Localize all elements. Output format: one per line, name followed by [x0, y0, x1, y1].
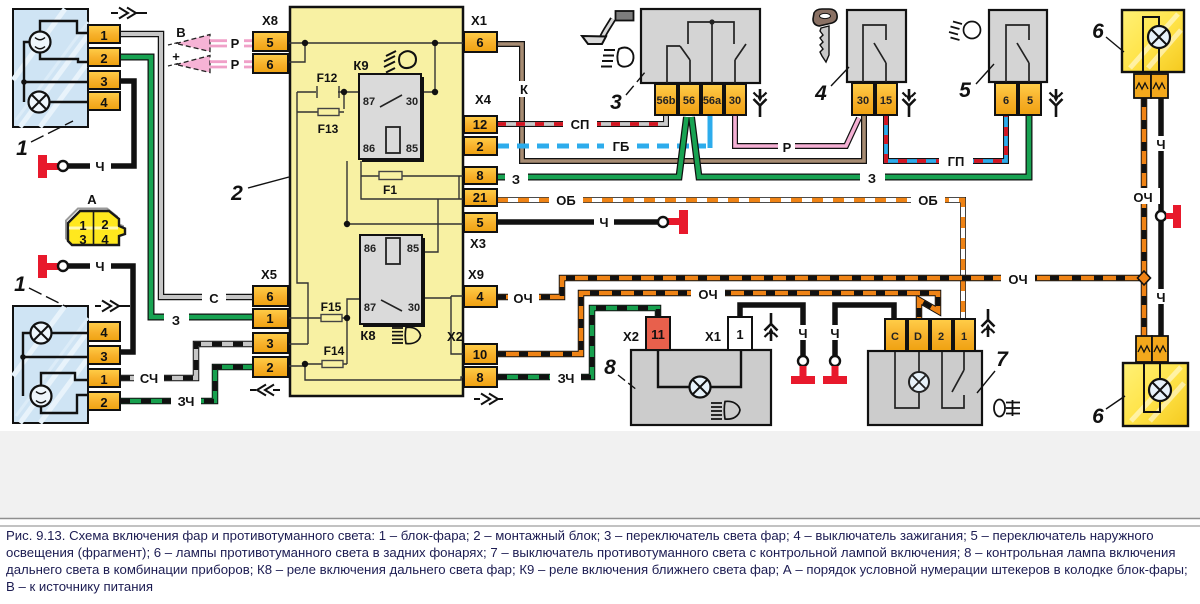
svg-text:4: 4 — [101, 232, 109, 247]
wire internal F1 frame to X3-21 — [361, 176, 464, 199]
svg-text:ГБ: ГБ — [613, 139, 630, 154]
relay K9 — [359, 74, 424, 162]
svg-text:1: 1 — [736, 327, 743, 342]
svg-text:6: 6 — [1092, 405, 1104, 428]
label А connector (pin numbering) — [66, 209, 125, 248]
wire internal X8-5 to X1-6 — [288, 42, 464, 44]
svg-text:F12: F12 — [317, 71, 338, 85]
svg-text:5: 5 — [959, 79, 971, 102]
lamp6 bottom internal — [1144, 363, 1160, 412]
icon low beam at K8 — [392, 327, 421, 343]
wire internal X8-6 tap — [288, 43, 305, 62]
wire Ч: switch7 C to ground — [826, 305, 894, 356]
wire ЗЧ: X2-8 to lamp8 X2-11 — [497, 308, 658, 384]
svg-text:4: 4 — [476, 289, 484, 304]
wire ОЧ: X9-4 to right junction — [497, 270, 1144, 304]
svg-text:ЗЧ: ЗЧ — [558, 371, 575, 386]
connector X1 cell 6 — [464, 32, 497, 52]
svg-text:Х9: Х9 — [468, 267, 484, 282]
shielding arrow symbol top — [111, 8, 147, 19]
svg-text:1: 1 — [16, 137, 28, 160]
lamp6 bottom terminals — [1136, 336, 1168, 362]
wire К brown: X1-6 to ignition switch 30 — [497, 44, 864, 161]
switch3 cells 56b,56,56a,30 — [655, 84, 746, 115]
wire pink to X8-5 with В arrow — [168, 35, 253, 52]
lamp8 bulb — [690, 377, 711, 398]
indicator lamp 8 body — [631, 350, 771, 425]
svg-text:85: 85 — [407, 243, 419, 255]
svg-text:Х1: Х1 — [705, 329, 721, 344]
lamp6 top internal — [1143, 17, 1159, 72]
svg-text:ОЧ: ОЧ — [698, 287, 717, 302]
wire Ч black: rear lamp column right — [1150, 98, 1171, 336]
lamp6 bottom bulb — [1149, 379, 1171, 401]
svg-text:3: 3 — [266, 336, 273, 351]
svg-text:2: 2 — [101, 217, 108, 232]
lamp6 top terminals — [1134, 74, 1168, 98]
svg-text:3: 3 — [100, 74, 107, 89]
svg-text:86: 86 — [364, 243, 376, 255]
svg-text:2: 2 — [938, 331, 944, 343]
svg-text:Р: Р — [783, 140, 792, 155]
svg-text:З: З — [512, 172, 520, 187]
svg-text:21: 21 — [473, 190, 487, 205]
fuse F14 — [305, 363, 347, 365]
wire Ч: lamp8 X1-1 to ground — [740, 305, 812, 356]
svg-text:К8: К8 — [360, 328, 375, 343]
wire internal left bus — [288, 92, 308, 344]
svg-text:C: C — [891, 331, 899, 343]
lamp8 cell X2-11 — [646, 317, 670, 350]
svg-text:Х8: Х8 — [262, 13, 278, 28]
svg-text:5: 5 — [266, 35, 273, 50]
svg-text:СП: СП — [571, 117, 590, 132]
wire ОЧ: X2-10 to switch7 D — [497, 285, 938, 354]
svg-text:2: 2 — [100, 395, 107, 410]
svg-text:30: 30 — [408, 302, 420, 314]
switch7 internal lamp circuit — [895, 351, 919, 408]
svg-text:6: 6 — [266, 289, 273, 304]
icon high beam at lamp8 — [711, 401, 740, 419]
body symbol at switch5 — [1050, 89, 1063, 117]
svg-text:ОБ: ОБ — [556, 193, 575, 208]
connector X5 cells 6,1,3,2 — [253, 286, 288, 377]
body symbol at switch4 — [903, 89, 916, 117]
headlamp1 position lamp — [29, 92, 50, 113]
svg-text:Ч: Ч — [95, 259, 104, 274]
svg-text:С: С — [209, 291, 219, 306]
junction ОЧ — [1138, 271, 1151, 285]
svg-text:А: А — [87, 192, 97, 207]
svg-text:З: З — [172, 313, 180, 328]
shielding arrow symbol below X5 — [250, 385, 280, 396]
svg-text:Х1: Х1 — [471, 13, 487, 28]
svg-text:87: 87 — [363, 96, 375, 108]
wire З green: X4-8 to switch3 56 and switch5 5 — [497, 116, 1029, 186]
svg-text:15: 15 — [880, 95, 892, 107]
svg-text:86: 86 — [363, 143, 375, 155]
svg-text:3: 3 — [79, 232, 86, 247]
icon rear fog at switch7 — [994, 400, 1020, 417]
svg-text:2: 2 — [230, 182, 243, 205]
wire internal F15 to K8-87 — [347, 299, 360, 364]
wire Ч black: headlamp1 pin3 to ground — [67, 81, 134, 173]
svg-text:Х2: Х2 — [447, 329, 463, 344]
svg-text:87: 87 — [364, 302, 376, 314]
rear fog lamp 6 (top) body — [1122, 10, 1184, 72]
svg-text:F1: F1 — [383, 183, 397, 197]
connector X3 cells 8,21,5 — [464, 167, 497, 232]
svg-text:Х4: Х4 — [475, 92, 492, 107]
connector X2 cells 10,8 — [464, 344, 497, 387]
svg-text:8: 8 — [604, 356, 616, 379]
wire internal K9 to X3-5 — [347, 161, 464, 224]
svg-text:Ч: Ч — [798, 326, 807, 341]
svg-text:56b: 56b — [657, 95, 676, 107]
wire ЗЧ: headlamp1b pin2 to X5-2 — [120, 367, 253, 408]
relay K8 — [360, 235, 425, 327]
svg-text:2: 2 — [100, 51, 107, 66]
icon high beam at K9 — [384, 51, 416, 73]
switch5 cells 6,5 — [995, 83, 1041, 115]
icon low beam at switch3 — [601, 48, 634, 67]
wire internal X5-2 to F14 and X2-8 — [288, 364, 464, 380]
svg-text:ОЧ: ОЧ — [513, 291, 532, 306]
svg-text:В: В — [176, 25, 185, 40]
svg-text:4: 4 — [100, 325, 108, 340]
svg-text:D: D — [914, 331, 922, 343]
svg-text:30: 30 — [406, 96, 418, 108]
svg-text:Ч: Ч — [95, 159, 104, 174]
svg-text:Х5: Х5 — [261, 267, 277, 282]
wire С grey: headlamp1 pin1 to X5-6 — [120, 34, 253, 305]
svg-text:1: 1 — [100, 28, 107, 43]
wire ГБ blue dashed: X4-2 to switch3 56a — [497, 116, 710, 153]
switch4 cells 30,15 — [852, 83, 897, 115]
svg-text:12: 12 — [473, 117, 487, 132]
svg-text:5: 5 — [1027, 95, 1033, 107]
svg-text:Р: Р — [231, 57, 240, 72]
wire Ч black: headlamp1b pin3 to ground — [67, 258, 133, 352]
pedal icon — [582, 11, 634, 44]
switch4 internal contact — [863, 25, 886, 82]
wire internal K9-86 to F1 — [360, 161, 362, 176]
headlamp1b internal wiring — [23, 333, 88, 413]
svg-text:6: 6 — [1092, 20, 1104, 43]
wire СЧ: headlamp1b pin1 to X5-3 — [120, 344, 253, 385]
fog switch 7 body — [868, 351, 982, 425]
ground at lamp8 — [791, 356, 815, 384]
rear fog lamp 6 (bottom) body — [1123, 363, 1188, 426]
svg-text:1: 1 — [266, 311, 273, 326]
headlamp unit 1 (top) body — [13, 9, 88, 127]
wire internal to K9 30 — [423, 43, 435, 92]
svg-text:ЗЧ: ЗЧ — [178, 394, 195, 409]
svg-text:56a: 56a — [703, 95, 722, 107]
wire СП grey-red: X4-12 to switch3 56b — [497, 116, 666, 131]
svg-text:3: 3 — [610, 91, 622, 114]
lamp8 cell X1-1 — [728, 317, 752, 350]
junction dots inside block — [302, 40, 438, 367]
svg-text:К9: К9 — [353, 58, 368, 73]
svg-text:F13: F13 — [318, 122, 339, 136]
ground top-left — [38, 155, 68, 178]
svg-text:ОЧ: ОЧ — [1008, 272, 1027, 287]
svg-text:Ч: Ч — [599, 215, 608, 230]
svg-text:3: 3 — [100, 349, 107, 364]
svg-text:4: 4 — [814, 82, 827, 105]
wire ОБ orange-white: X3-21 to switch7 pin1 — [497, 192, 963, 319]
svg-text:1: 1 — [100, 372, 107, 387]
body symbol up at switch7 — [982, 309, 995, 337]
ground at switch7 — [823, 356, 847, 384]
headlamp1 connector cells 1,2,3,4 — [88, 25, 120, 110]
svg-text:8: 8 — [476, 370, 483, 385]
body symbol up at lamp8 — [765, 313, 778, 341]
svg-text:+: + — [172, 49, 180, 64]
headlamp1 dual-filament lamp — [30, 32, 51, 53]
svg-text:F15: F15 — [321, 300, 342, 314]
wire ОЧ vertical: rear lamps column — [1127, 98, 1160, 336]
fuse F15 — [288, 317, 347, 319]
svg-text:30: 30 — [729, 95, 741, 107]
svg-text:5: 5 — [476, 215, 483, 230]
svg-text:4: 4 — [100, 95, 108, 110]
headlamp1 internal wiring — [24, 21, 88, 102]
key icon — [813, 9, 837, 62]
svg-text:К: К — [520, 82, 528, 97]
switch 3 (headlight switch) body — [641, 9, 760, 83]
wire internal K8-30 to X9-4 and X2-10 — [424, 296, 464, 354]
wire pink to X8-6 with В arrow — [168, 56, 253, 73]
svg-text:8: 8 — [476, 168, 483, 183]
fuse F12 — [297, 86, 360, 98]
svg-text:2: 2 — [266, 360, 273, 375]
ground right column — [1156, 205, 1181, 228]
svg-text:2: 2 — [476, 139, 483, 154]
svg-text:7: 7 — [996, 348, 1009, 371]
svg-text:СЧ: СЧ — [140, 371, 158, 386]
svg-text:F14: F14 — [324, 344, 345, 358]
svg-text:1: 1 — [79, 218, 86, 233]
mounting block 2 body — [290, 7, 463, 396]
wire Ч: X3-5 to ground — [497, 214, 659, 229]
svg-text:30: 30 — [857, 95, 869, 107]
connector X4 cells 12,2 — [464, 116, 497, 155]
wire Р pink: switch3 30 to ignition 30 — [735, 115, 859, 154]
svg-text:Ч: Ч — [1156, 290, 1165, 305]
svg-text:1: 1 — [14, 273, 26, 296]
connector X9 cell 4 — [464, 286, 497, 307]
lamp8 internal wiring — [658, 350, 741, 387]
connector X8 cells 5,6 — [253, 32, 288, 73]
wire internal F1 to K8-85 — [424, 199, 438, 252]
switch 5 (light switch) body — [989, 10, 1047, 82]
svg-text:10: 10 — [473, 347, 487, 362]
shielding arrow symbol below X2 — [474, 394, 503, 405]
svg-text:Х3: Х3 — [470, 236, 486, 251]
svg-text:ГП: ГП — [948, 154, 965, 169]
svg-text:6: 6 — [476, 35, 483, 50]
svg-text:Р: Р — [231, 36, 240, 51]
svg-text:ОЧ: ОЧ — [1133, 190, 1152, 205]
svg-text:6: 6 — [266, 57, 273, 72]
shielding arrow symbol above bottom headlamp — [95, 301, 130, 312]
svg-text:З: З — [868, 171, 876, 186]
switch7 bulb — [909, 372, 929, 392]
headlamp unit 1 (bottom) body — [13, 306, 88, 423]
svg-text:6: 6 — [1003, 95, 1009, 107]
headlamp1b connector cells 4,3,1,2 — [88, 322, 120, 410]
svg-text:Ч: Ч — [1156, 137, 1165, 152]
switch7 cells C,D,2,1 — [885, 319, 975, 351]
body symbol at switch3 — [754, 89, 767, 117]
switch7 internal contact — [942, 351, 964, 408]
switch5 internal contact — [1006, 25, 1029, 82]
headlamp1b dual-filament lamp — [31, 386, 52, 407]
switch 4 (ignition) body — [847, 10, 906, 82]
svg-text:11: 11 — [651, 327, 665, 342]
switch3 internal contacts — [667, 22, 746, 83]
headlamp1b position lamp — [31, 323, 52, 344]
svg-text:Ч: Ч — [830, 326, 839, 341]
icon side light at switch5 — [949, 22, 981, 41]
fuse F1 — [361, 175, 464, 177]
svg-text:Х2: Х2 — [623, 329, 639, 344]
lamp6 top bulb — [1148, 26, 1170, 48]
svg-text:1: 1 — [961, 331, 967, 343]
wire З green: headlamp1 pin2 to X5-1 — [120, 57, 253, 326]
ground X3-5 red — [658, 210, 688, 234]
svg-text:85: 85 — [406, 143, 418, 155]
wire ГП blue-red: ignition 15 to switch5 6 — [886, 116, 1006, 168]
ground bottom-left — [38, 255, 68, 278]
svg-text:56: 56 — [683, 95, 695, 107]
fuse F13 — [297, 92, 344, 112]
svg-text:ОБ: ОБ — [918, 193, 937, 208]
